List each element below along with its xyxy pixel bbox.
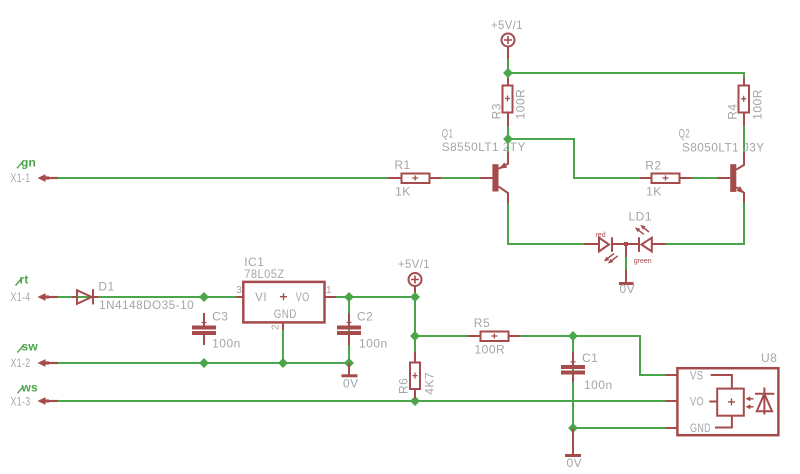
svg-text:100n: 100n — [584, 378, 613, 392]
node junction C2 bottom sw — [344, 358, 354, 368]
svg-text:1K: 1K — [395, 184, 411, 198]
net label gn — [17, 155, 36, 169]
svg-text:X1-3: X1-3 — [11, 396, 31, 408]
svg-text:R2: R2 — [645, 158, 661, 172]
capacitor C3 100n — [192, 310, 241, 351]
svg-text:Q1: Q1 — [442, 127, 454, 141]
svg-text:VS: VS — [690, 369, 704, 383]
wire rt net X1-4 to IC1 — [58, 296, 237, 298]
diode D1 1N4148 — [72, 279, 195, 312]
svg-text:S8050LT1 J3Y: S8050LT1 J3Y — [682, 140, 765, 154]
svg-text:ws: ws — [21, 380, 39, 394]
node junction R6 bottom ws — [410, 396, 420, 406]
wire ws net X1-3 to U8 VO — [58, 400, 666, 402]
svg-text:GND: GND — [274, 307, 297, 321]
wire IC1 GND stub — [282, 322, 284, 363]
svg-text:+5V/1: +5V/1 — [398, 257, 430, 271]
LED LD1 red — [584, 232, 626, 264]
svg-text:rt: rt — [20, 273, 29, 287]
node junction +5V second — [410, 292, 420, 302]
ground 0V under C1 — [565, 428, 582, 470]
resistor R5 100R horizontal — [467, 316, 521, 356]
svg-text:D1: D1 — [98, 279, 114, 293]
capacitor C2 100n — [337, 310, 388, 351]
ground 0V under LD1 — [619, 245, 635, 297]
svg-text:1: 1 — [326, 285, 332, 296]
node junction R5 R6 split — [410, 331, 420, 341]
svg-text:VI: VI — [255, 290, 267, 304]
svg-text:R5: R5 — [474, 316, 490, 330]
svg-text:100R: 100R — [514, 89, 528, 120]
wire R3 chain vertical — [507, 73, 509, 152]
IC U8 sensor — [666, 351, 779, 435]
svg-text:4K7: 4K7 — [422, 372, 436, 395]
wire R6 branch vertical — [414, 336, 416, 401]
svg-text:X1-2: X1-2 — [11, 358, 31, 370]
svg-text:R4: R4 — [726, 103, 740, 119]
wire emitter node to R2 to Q2 base — [508, 139, 717, 178]
wire LED center to ground — [625, 250, 627, 272]
node junction +5V rail — [503, 68, 513, 78]
svg-text:0V: 0V — [567, 456, 583, 470]
IC1 78L05Z regulator — [236, 255, 336, 330]
net label ws — [18, 380, 39, 394]
pin X1-2 — [11, 358, 59, 370]
svg-text:U8: U8 — [761, 351, 777, 365]
svg-text:C3: C3 — [212, 310, 228, 324]
node junction IC1 gnd sw — [278, 358, 288, 368]
svg-text:100R: 100R — [751, 89, 765, 120]
resistor R6 4K7 vertical — [396, 352, 436, 399]
svg-text:100n: 100n — [212, 337, 241, 351]
svg-text:S8550LT1 2TY: S8550LT1 2TY — [442, 140, 526, 154]
pin X1-3 — [11, 396, 59, 408]
node junction C3 sw — [199, 358, 209, 368]
svg-text:C2: C2 — [357, 310, 373, 324]
wire IC1 output to +5V node — [336, 296, 415, 298]
wire C2 branch vertical — [348, 297, 350, 363]
svg-text:1N4148DO35-10: 1N4148DO35-10 — [99, 298, 194, 312]
supply +5V/1 symbol middle — [398, 257, 430, 293]
capacitor C1 100n — [561, 351, 613, 392]
LED LD1 green — [626, 225, 666, 265]
svg-text:X1-1: X1-1 — [11, 173, 31, 185]
node junction D1 cathode C3 — [199, 292, 209, 302]
svg-text:0V: 0V — [343, 376, 359, 390]
svg-text:gn: gn — [21, 155, 36, 169]
supply +5V/1 symbol top — [491, 18, 523, 59]
wire +5V rail to R4 — [508, 57, 744, 80]
svg-text:X1-4: X1-4 — [11, 292, 31, 304]
svg-text:0V: 0V — [620, 282, 636, 296]
resistor R3 100R vertical — [490, 78, 528, 127]
node junction R3 bottom emitter node — [503, 134, 513, 144]
net label rt — [16, 273, 29, 287]
svg-text:green: green — [634, 258, 652, 265]
wire C1 branch vertical — [572, 336, 574, 428]
wire R5 chain to U8 VS — [415, 336, 666, 375]
LD1 origin cross — [624, 242, 628, 246]
wire Q1 collector to LED — [508, 202, 586, 244]
pin X1-1 — [11, 173, 59, 185]
svg-text:sw: sw — [22, 340, 39, 354]
node junction C1 bottom gnd — [568, 423, 578, 433]
resistor R2 1K horizontal — [640, 158, 692, 198]
svg-text:VO: VO — [296, 290, 310, 304]
transistor Q1 S8550 PNP — [442, 127, 526, 204]
svg-text:GND: GND — [690, 421, 711, 435]
resistor R4 100R vertical — [726, 78, 765, 126]
svg-text:R3: R3 — [490, 103, 504, 119]
svg-text:100R: 100R — [475, 342, 506, 356]
node junction C1 top — [568, 331, 578, 341]
svg-text:2: 2 — [271, 324, 282, 330]
ground 0V under C2 — [342, 363, 359, 390]
svg-text:R1: R1 — [394, 158, 410, 172]
wire +5V/1 second supply stub — [414, 288, 416, 336]
svg-text:C1: C1 — [582, 351, 598, 365]
svg-text:1K: 1K — [646, 184, 662, 198]
svg-text:3: 3 — [236, 285, 242, 296]
svg-text:Q2: Q2 — [679, 127, 691, 141]
svg-text:100n: 100n — [359, 337, 388, 351]
resistor R1 1K horizontal — [388, 158, 441, 199]
pin X1-4 — [11, 292, 59, 304]
LD1 label — [629, 209, 653, 223]
wire C1 bottom to U8 GND — [573, 427, 666, 429]
svg-text:R6: R6 — [396, 378, 410, 394]
wire sw net X1-2 to C2 ground — [58, 362, 349, 364]
net label sw — [18, 340, 39, 354]
svg-text:VO: VO — [690, 395, 704, 409]
svg-text:red: red — [596, 232, 606, 239]
transistor Q2 S8050 NPN — [679, 127, 765, 203]
svg-text:78L05Z: 78L05Z — [244, 267, 285, 281]
wire gn net horizontal — [58, 177, 480, 179]
wire R4 to Q2 collector — [743, 125, 745, 153]
wire LED to Q2 emitter — [666, 202, 745, 244]
svg-text:LD1: LD1 — [629, 209, 653, 223]
svg-text:+5V/1: +5V/1 — [491, 18, 523, 32]
node junction IC1 out C2 — [344, 292, 354, 302]
